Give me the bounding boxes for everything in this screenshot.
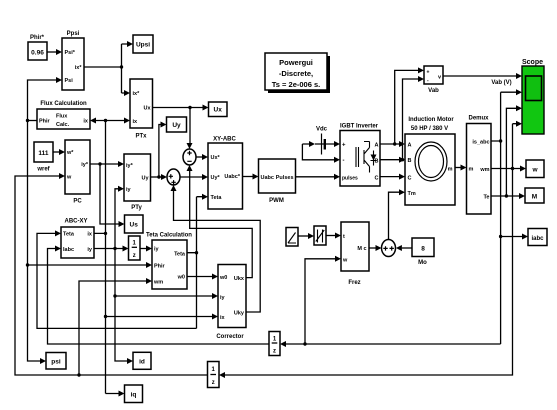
svg-text:Pulses: Pulses (276, 175, 294, 181)
svg-text:t: t (343, 234, 345, 240)
wire IGBT A to motor A with Vab tap (380, 67, 424, 147)
svg-text:Frez: Frez (348, 280, 360, 286)
wire ramp to rate limiter (298, 233, 314, 239)
svg-text:Us: Us (130, 222, 139, 229)
sum junction S3 (382, 240, 396, 257)
block Induction Motor (405, 117, 455, 205)
display Uy (167, 117, 187, 132)
svg-text:PWM: PWM (269, 198, 284, 204)
svg-text:C: C (375, 176, 379, 182)
wire 1/z A to Teta Calculation iy (140, 246, 152, 252)
svg-text:Corrector: Corrector (216, 334, 244, 340)
wire PC iy* to PTy iy* (90, 161, 124, 167)
wire Teta bus to XY-ABC Teta and ABC-XY Teta (37, 194, 208, 329)
wire IGBT C to motor C (380, 174, 405, 180)
svg-text:-Discrete,: -Discrete, (279, 69, 313, 78)
svg-text:Te: Te (483, 195, 489, 201)
wire Teta Calc w0 to Corrector (187, 274, 218, 280)
svg-text:Vab (V): Vab (V) (491, 80, 511, 86)
wire sum2 to XY-ABC Uy* (180, 174, 208, 180)
wire Flux Calc Phir output to bus (28, 120, 38, 122)
svg-text:Ppsi: Ppsi (67, 31, 80, 37)
wire Uy tap to Uy display (159, 122, 167, 178)
svg-text:Calc.: Calc. (56, 122, 70, 128)
svg-text:Upsi: Upsi (136, 42, 150, 49)
svg-text:Uabc*: Uabc* (224, 174, 240, 180)
svg-text:wm: wm (479, 167, 489, 173)
unit delay 1/z B (269, 332, 280, 356)
block PC (65, 140, 90, 205)
unit delay 1/z A (129, 236, 141, 260)
display psi (46, 353, 66, 370)
svg-text:Flux: Flux (56, 114, 68, 120)
wire Ux tap down to sum1 (187, 108, 193, 150)
display Upsi (133, 35, 153, 53)
block Frez (341, 222, 369, 286)
rate limiter (314, 226, 326, 245)
wire tap to Frez w input (303, 256, 341, 346)
wire PTx Ux output to Ux display (153, 105, 209, 111)
svg-text:Tm: Tm (408, 191, 416, 197)
svg-text:m: m (448, 167, 453, 173)
wire Corrector Ukx to sum1 (187, 165, 253, 278)
block PTy (124, 154, 151, 211)
svg-text:wref: wref (36, 167, 50, 173)
wire wm to w display, Scope input4 and 1/z C (219, 121, 526, 378)
svg-text:+: + (342, 143, 346, 149)
svg-text:iabc: iabc (531, 236, 544, 242)
block Flux Calculation (37, 101, 90, 129)
sum junction S1 (183, 149, 196, 165)
display Ux (209, 102, 228, 117)
wire PTy Uy output to sum2 (151, 174, 168, 180)
svg-text:w: w (342, 258, 348, 264)
svg-text:Uy: Uy (141, 176, 149, 182)
constant Phir* 0.96 (28, 35, 47, 60)
wire motor m to Demux (455, 165, 467, 171)
svg-text:Mo: Mo (418, 260, 427, 266)
svg-text:Ts = 2e-006 s.: Ts = 2e-006 s. (272, 80, 320, 89)
svg-text:Psi*: Psi* (65, 50, 76, 56)
svg-text:PC: PC (73, 199, 82, 205)
svg-text:M c: M c (357, 246, 366, 252)
wire rate limiter to Frez t (326, 233, 341, 239)
wire Ppsi ix* to Upsi and PTx ix* (84, 41, 133, 96)
block Ppsi (62, 31, 84, 90)
svg-text:8: 8 (421, 246, 425, 253)
svg-text:Phir: Phir (39, 119, 51, 125)
svg-text:Uabc: Uabc (261, 175, 274, 181)
svg-text:iy*: iy* (81, 162, 89, 168)
svg-text:Scope: Scope (522, 59, 543, 66)
svg-text:w0: w0 (177, 275, 185, 281)
svg-text:Ux*: Ux* (211, 155, 221, 161)
constant 111 wref (34, 142, 53, 173)
signal generator ramp (286, 228, 298, 247)
svg-text:-: - (343, 158, 345, 164)
svg-text:Teta Calculation: Teta Calculation (146, 233, 192, 239)
svg-text:Iabc: Iabc (63, 247, 74, 253)
svg-text:A: A (375, 143, 379, 149)
wire Mo to sum3 (396, 245, 412, 251)
block Demux (467, 116, 492, 215)
voltage measurement Vab (424, 66, 443, 94)
svg-text:ABC-XY: ABC-XY (64, 219, 87, 225)
display M (525, 188, 544, 203)
scope Scope (522, 59, 544, 134)
wire Vdc negative loop to IGBT minus (302, 144, 340, 163)
wire IGBT B to motor B with Vab tap (380, 76, 424, 163)
svg-text:Ux: Ux (143, 106, 151, 112)
svg-text:Induction Motor: Induction Motor (408, 117, 454, 123)
wire PWM Pulses to IGBT pulses (296, 174, 341, 180)
svg-text:Teta: Teta (211, 195, 223, 201)
svg-text:id: id (139, 359, 145, 366)
svg-text:0.96: 0.96 (31, 50, 44, 57)
display w (526, 160, 544, 178)
wire iy branch to PTy iy, Corrector iy, id (113, 186, 218, 364)
svg-text:Vdc: Vdc (316, 127, 328, 133)
display id (133, 352, 151, 369)
svg-text:IGBT Inverter: IGBT Inverter (340, 124, 379, 130)
svg-text:wm: wm (153, 280, 163, 286)
svg-text:B: B (375, 159, 379, 165)
svg-text:Uy: Uy (172, 122, 181, 129)
block XY-ABC (208, 137, 243, 210)
svg-text:Demux: Demux (468, 116, 489, 122)
block IGBT Inverter (340, 124, 380, 187)
svg-text:pulses: pulses (342, 176, 358, 182)
svg-text:w: w (66, 175, 72, 181)
display iq (125, 385, 143, 403)
svg-text:Ukx: Ukx (234, 276, 245, 282)
unit delay 1/z C (208, 362, 220, 388)
DC source Vdc (302, 127, 340, 155)
svg-text:+: + (427, 70, 430, 76)
svg-text:z: z (133, 253, 136, 259)
wire sum3 to motor Tm (389, 189, 406, 239)
svg-text:Ux: Ux (214, 107, 223, 114)
svg-text:PTy: PTy (131, 205, 142, 211)
svg-text:is_abc: is_abc (472, 140, 489, 146)
svg-text:Phir*: Phir* (30, 35, 45, 41)
wire XY-ABC Uabc* to PWM (243, 174, 259, 180)
svg-text:50 HP / 380 V: 50 HP / 380 V (411, 126, 448, 132)
wire is_abc to Scope, iabc display and 1/z B (280, 89, 528, 347)
constant Mo 8 (412, 238, 434, 266)
svg-text:Psi: Psi (65, 78, 74, 84)
svg-text:z: z (212, 380, 215, 386)
wire Phir bus to Ppsi Psi and psi display (26, 77, 62, 364)
block ABC-XY (61, 219, 94, 259)
svg-text:w: w (531, 167, 538, 174)
wire Frez Mc to sum3 (369, 245, 382, 251)
wire Vab v to Scope input1 (443, 73, 522, 86)
svg-text:Vab: Vab (428, 88, 439, 94)
svg-text:w*: w* (66, 150, 74, 156)
svg-text:Teta: Teta (63, 232, 75, 238)
wire sum1 to XY-ABC Ux* (196, 154, 208, 160)
svg-text:w0: w0 (219, 275, 227, 281)
svg-text:Teta: Teta (174, 252, 186, 258)
svg-text:Phir: Phir (154, 264, 166, 270)
svg-text:M: M (532, 194, 537, 201)
block Powergui (265, 53, 330, 93)
unit delay 1/z B feedback to ABC-XY Iabc (48, 246, 270, 345)
svg-text:Flux Calculation: Flux Calculation (40, 101, 87, 107)
block Teta Calculation (146, 233, 192, 290)
svg-text:psi: psi (51, 359, 61, 366)
display Us (125, 215, 144, 233)
svg-text:iy*: iy* (126, 163, 134, 169)
svg-text:111: 111 (38, 150, 49, 157)
block PWM (259, 159, 296, 204)
svg-text:Powergui: Powergui (279, 58, 313, 67)
svg-text:XY-ABC: XY-ABC (213, 137, 236, 143)
svg-text:z: z (273, 349, 276, 355)
block Corrector (216, 265, 246, 341)
wire ABC-XY iy to unit delay (94, 246, 129, 252)
wire 1/z C output to PC w and Teta Calc wm (15, 173, 208, 377)
wire 111 to PC w* (53, 149, 65, 155)
wire ix bus vertical to Corrector ix and iq (94, 121, 218, 397)
svg-text:B: B (408, 158, 412, 164)
svg-text:ix*: ix* (75, 65, 83, 71)
svg-text:PTx: PTx (135, 134, 147, 140)
svg-text:C: C (408, 176, 412, 182)
wire iy* tap to Us display (100, 164, 125, 227)
svg-text:Uy*: Uy* (211, 175, 221, 181)
svg-text:A: A (408, 143, 412, 149)
display iabc (528, 229, 547, 246)
wire Te to M display and Scope input3 (491, 105, 525, 199)
sum junction S2 (167, 169, 180, 185)
svg-text:iq: iq (131, 392, 137, 399)
wire 0.96 to Ppsi Psi* (47, 49, 62, 55)
wire Corrector Uky to sum2 (171, 185, 261, 312)
block PTx (130, 79, 153, 140)
wire ix into Flux Calc and PTx (90, 118, 130, 124)
svg-text:ix*: ix* (133, 91, 141, 97)
svg-text:m: m (469, 167, 474, 173)
wire Phir bus to Teta Calculation Phir (28, 262, 153, 268)
svg-text:Uky: Uky (234, 311, 245, 317)
